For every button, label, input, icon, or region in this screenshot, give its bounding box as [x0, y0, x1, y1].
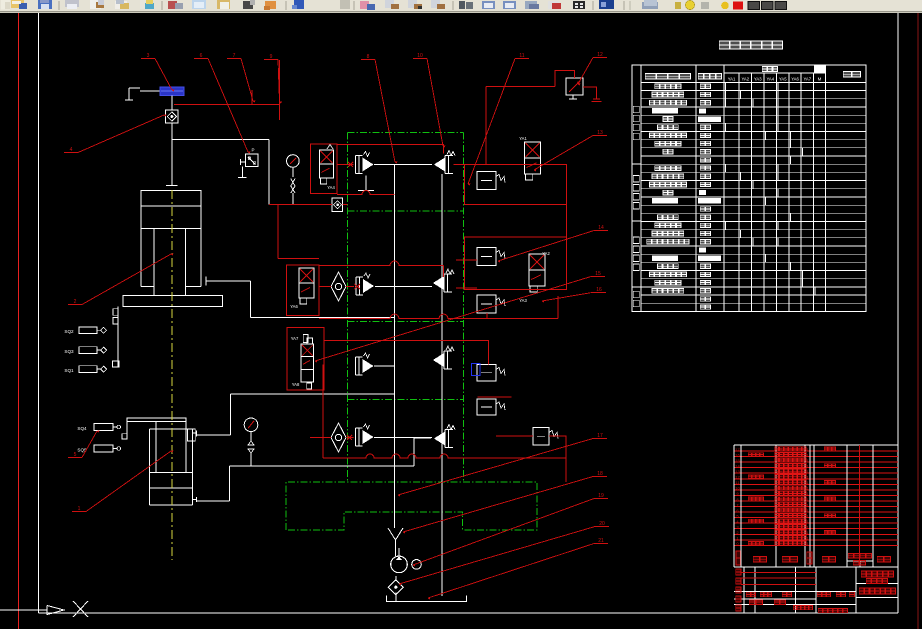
pressure gauge G1	[287, 155, 300, 177]
limit switch SQ2	[64, 327, 106, 334]
pipe to relief	[486, 70, 602, 101]
wire	[268, 140, 270, 205]
balloon 7	[227, 53, 256, 103]
slide platform lower	[127, 418, 186, 422]
UCS icon	[0, 601, 88, 617]
pilot check valve A2	[434, 151, 455, 174]
balloon 14	[498, 225, 608, 263]
valve block 2	[533, 428, 558, 446]
pilot check valve C2	[433, 346, 454, 369]
limit switch SQ1	[64, 366, 106, 373]
throttle	[291, 179, 295, 205]
pipe red drain A	[337, 191, 395, 195]
pilot check valve B2	[433, 269, 454, 292]
balloon 8	[361, 54, 398, 164]
pipe red	[251, 90, 253, 104]
svg-text:YA7: YA7	[803, 76, 811, 81]
pipe red	[496, 436, 566, 482]
pipe red drain B	[319, 296, 558, 319]
svg-text:YA4: YA4	[327, 185, 335, 190]
pipe red	[456, 287, 477, 289]
centerline	[171, 190, 173, 560]
check valve V3	[388, 580, 403, 595]
manifold block outline lower	[286, 482, 537, 530]
pressure relay K3	[477, 295, 505, 313]
wire	[197, 438, 431, 501]
svg-text:YA1: YA1	[728, 76, 736, 81]
svg-text:16: 16	[735, 452, 740, 457]
relief valve	[566, 78, 583, 99]
limit switch SQ4	[77, 424, 120, 431]
balloon 9	[264, 54, 282, 104]
tank	[386, 596, 466, 602]
pipe red	[565, 204, 567, 237]
pressure relay K4	[477, 365, 505, 382]
pipe red	[478, 396, 512, 398]
svg-text:YA2: YA2	[741, 76, 749, 81]
pipe red pilot B	[319, 261, 444, 277]
balloon 12	[578, 52, 607, 86]
svg-text:14: 14	[735, 463, 740, 468]
pressure gauge (blue, selected)	[160, 87, 184, 96]
strainer	[388, 528, 403, 556]
pressure gauge G2	[244, 418, 258, 466]
svg-text:17: 17	[735, 447, 740, 452]
balloon 4	[64, 114, 167, 153]
solenoid action table title	[719, 41, 782, 49]
solenoid valve YA4	[311, 144, 338, 194]
solenoid valve YA7 YA8	[287, 328, 324, 390]
pilot check valve A1	[356, 152, 374, 174]
wire	[441, 174, 443, 596]
svg-text:15: 15	[735, 458, 740, 463]
balloon 5	[68, 430, 100, 458]
pressure relay K1	[465, 165, 567, 205]
pressure relay K5	[477, 399, 505, 415]
balloon 10	[413, 53, 446, 148]
pipe red	[454, 164, 465, 166]
pilot check valve D1	[356, 424, 374, 446]
hydraulic cylinder upper	[141, 191, 201, 296]
balloon 15	[315, 271, 605, 363]
toolbar	[0, 0, 922, 13]
solenoid valve YA6	[287, 265, 319, 316]
wire	[172, 139, 269, 141]
svg-text:YA4: YA4	[766, 76, 774, 81]
balloon 11	[468, 53, 529, 186]
wire	[374, 365, 395, 367]
balloon 19	[413, 493, 608, 567]
solenoid valve YA2 YA3	[519, 251, 550, 303]
hydraulic cylinder lower	[149, 422, 196, 506]
pressure relay K2	[465, 237, 567, 289]
svg-text:SQ1: SQ1	[64, 368, 74, 373]
svg-text:YA6: YA6	[791, 76, 799, 81]
drain under A1	[358, 176, 374, 191]
limit switch SQ5	[77, 445, 120, 452]
parts list and title block	[734, 445, 898, 613]
svg-text:13: 13	[735, 469, 740, 474]
balloon 3	[141, 53, 175, 92]
balloon 13	[534, 130, 607, 172]
svg-text:SQ3: SQ3	[64, 349, 74, 354]
solenoid valve YA1	[519, 136, 540, 180]
wire red main	[485, 86, 487, 164]
pipe red pilot	[337, 145, 444, 154]
valve P (2-way)	[240, 148, 258, 167]
pipe red drain	[323, 365, 566, 459]
wire	[395, 593, 397, 602]
manifold block outline	[348, 133, 464, 483]
pipe red	[278, 204, 319, 258]
balloon 6	[194, 53, 251, 154]
pilot check valve B1	[356, 273, 374, 295]
svg-text:YA1: YA1	[519, 136, 527, 141]
check valve V2	[332, 198, 343, 212]
balloon 2	[68, 253, 174, 305]
dog bracket lower	[122, 422, 127, 439]
pipe red	[310, 435, 354, 440]
wire	[206, 277, 395, 318]
pipe red	[279, 60, 281, 120]
svg-text:YA5: YA5	[779, 76, 787, 81]
limit switch SQ3	[64, 347, 106, 354]
svg-text:10: 10	[735, 486, 740, 491]
svg-text:YA7: YA7	[291, 336, 299, 341]
check valve V1	[166, 110, 179, 123]
svg-text:SQ4: SQ4	[77, 426, 87, 431]
filter F2	[331, 423, 346, 452]
solenoid action table	[632, 65, 866, 312]
svg-text:YA6: YA6	[290, 304, 298, 309]
svg-text:12: 12	[735, 475, 740, 480]
pilot check valve D2	[434, 425, 455, 448]
wire	[374, 164, 432, 166]
svg-text:YA8: YA8	[292, 382, 300, 387]
wire	[395, 576, 397, 581]
wire	[166, 140, 178, 186]
pipe red	[324, 341, 489, 365]
slide platform upper	[123, 295, 222, 306]
wire	[171, 96, 173, 111]
svg-text:YA3: YA3	[519, 298, 527, 303]
pipe red	[319, 284, 360, 289]
wire	[171, 123, 173, 140]
wire	[197, 394, 395, 435]
bracket fitting	[125, 88, 160, 100]
dog bracket upper	[113, 307, 120, 367]
svg-text:P: P	[251, 148, 254, 153]
balloon 17	[398, 433, 607, 497]
svg-text:SQ2: SQ2	[64, 329, 74, 334]
svg-text:YA3: YA3	[754, 76, 762, 81]
balloon 20	[399, 521, 609, 586]
wire	[375, 286, 432, 288]
balloon 16	[542, 287, 606, 303]
wire	[374, 437, 432, 439]
pump	[391, 548, 422, 573]
svg-text:M: M	[818, 77, 822, 82]
pipe red	[269, 203, 348, 205]
balloon 18	[403, 471, 607, 534]
filter F1	[331, 272, 346, 301]
balloon 1	[72, 450, 174, 512]
pilot check valve C1	[356, 353, 374, 375]
selected part (blue)	[472, 364, 481, 376]
wire	[394, 165, 396, 529]
pipe red	[337, 162, 354, 167]
balloon 21	[428, 538, 608, 600]
pipe red	[456, 259, 477, 261]
pipe red	[174, 103, 280, 105]
drain symbol	[238, 166, 247, 177]
